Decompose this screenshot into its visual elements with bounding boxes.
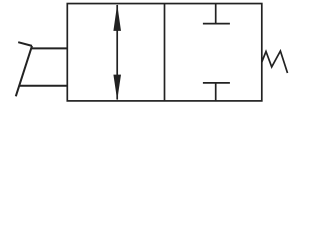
- closed port top stem: [215, 4, 217, 24]
- pedal top link wire: [31, 47, 67, 49]
- flow path arrow shaft (left position): [116, 5, 118, 100]
- pedal bottom link wire: [20, 85, 67, 87]
- pedal lever arm diagonal: [16, 46, 32, 96]
- valve body V1 outer box: [67, 4, 261, 101]
- return spring: [262, 51, 288, 73]
- valve position divider: [164, 4, 166, 101]
- pedal plate tick: [18, 42, 32, 46]
- flow path arrowhead top: [113, 4, 121, 31]
- closed port bottom bar: [203, 82, 230, 84]
- closed port top bar: [203, 23, 230, 25]
- closed port bottom stem: [215, 83, 217, 101]
- flow path arrowhead bottom: [113, 75, 121, 101]
